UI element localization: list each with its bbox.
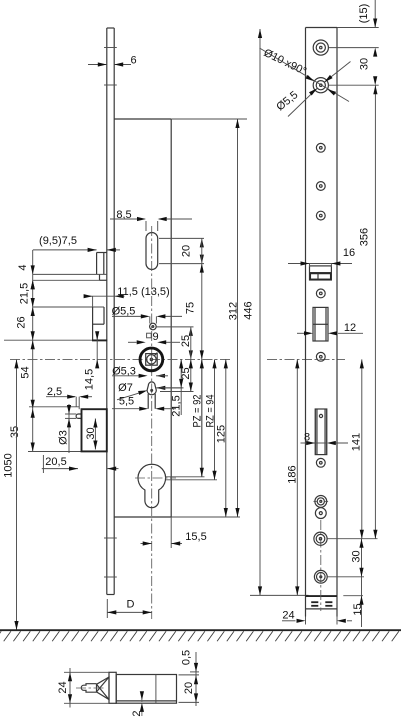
deadbolt (side view) <box>93 307 104 340</box>
dimension 312 case height <box>228 119 240 517</box>
dimension 125 <box>216 359 228 517</box>
svg-text:26: 26 <box>16 316 28 328</box>
dimension RZ = 94 <box>205 359 217 479</box>
svg-text:14,5: 14,5 <box>83 369 95 390</box>
dimension 15 bottom <box>352 577 364 627</box>
svg-text:Ø5,5: Ø5,5 <box>112 306 136 318</box>
svg-text:186: 186 <box>287 465 299 483</box>
dimension 30 bottom <box>351 539 364 577</box>
svg-text:16: 16 <box>343 247 355 259</box>
hole diameter 5,5 above follower <box>150 323 157 330</box>
dimension 186 <box>287 359 300 595</box>
svg-text:20,5: 20,5 <box>45 456 66 468</box>
dimension (9,5)7,5 latch protrusion <box>33 235 120 252</box>
detail bolt cone <box>97 677 110 700</box>
extension line strip top right <box>337 27 379 29</box>
top slot stadium hole <box>146 233 158 270</box>
lock case (side view) <box>114 119 171 517</box>
svg-text:15: 15 <box>352 603 364 615</box>
ground hatching <box>0 631 399 641</box>
PZ axis extension <box>166 476 205 478</box>
detail bolt center line <box>76 687 104 689</box>
svg-text:0,5: 0,5 <box>181 650 193 665</box>
extension line strip bottom right <box>343 595 363 597</box>
extension line y340 <box>4 339 92 341</box>
detail bolt pin tip <box>81 684 96 693</box>
svg-text:21,5: 21,5 <box>19 283 31 304</box>
svg-text:20: 20 <box>183 682 195 694</box>
svg-text:446: 446 <box>243 301 255 319</box>
svg-text:35: 35 <box>9 426 21 438</box>
svg-text:6: 6 <box>130 55 136 67</box>
dimension 35 <box>9 409 35 452</box>
dimension 1050 follower axis to floor <box>3 359 19 630</box>
follower square 9 label <box>147 331 159 343</box>
svg-text:25: 25 <box>180 367 192 379</box>
dimension 12 deadbolt width <box>297 322 363 335</box>
dimension 6 faceplate thickness <box>88 55 137 67</box>
extension line deadbolt top <box>33 306 104 308</box>
svg-text:25: 25 <box>180 335 192 347</box>
extension line bolt guide top <box>29 406 79 408</box>
dimension 356 <box>359 85 378 539</box>
faceplate front bottom cut line <box>306 595 338 597</box>
faceplate front view outline <box>306 28 338 617</box>
left chain dimension line <box>32 250 34 452</box>
dimension 30 top <box>329 48 379 86</box>
countersunk hole at 356 <box>314 532 327 545</box>
label diameter 10 x90 leader <box>260 47 350 102</box>
faceplate bottom box with break symbol <box>306 601 338 609</box>
svg-text:356: 356 <box>359 228 371 246</box>
dimension D backset <box>107 599 151 619</box>
countersunk hole bottom <box>314 570 327 583</box>
extension line latch bottom <box>33 273 107 275</box>
svg-text:141: 141 <box>350 433 362 451</box>
deadbolt guide thick line <box>92 339 107 341</box>
small hole 5 <box>316 211 325 220</box>
RZ axis extension <box>166 479 217 481</box>
dimension square 9 arrows <box>128 340 180 344</box>
dimension 4 <box>17 264 35 289</box>
extension line hole 356 <box>328 538 378 540</box>
dimension 75 <box>185 238 204 476</box>
dimension 21,5 follower to keyhole <box>160 359 184 416</box>
small hole 4 <box>316 182 325 191</box>
keep slot with pin hole <box>315 409 327 455</box>
dimension 54 <box>20 340 35 409</box>
dimension diameter 5,5 label <box>112 306 182 324</box>
extension line bottom hole <box>328 576 365 578</box>
dimension PZ = 92 <box>192 359 204 476</box>
shoot bolt pin <box>76 414 81 418</box>
svg-text:30: 30 <box>358 58 370 70</box>
svg-text:Ø3: Ø3 <box>58 430 70 445</box>
countersunk hole pair upper <box>314 496 329 508</box>
extension line bolt guide bottom <box>28 451 82 453</box>
case bottom extension line <box>171 516 240 518</box>
dimension 24 flange height <box>57 668 109 708</box>
svg-text:11,5 (13,5): 11,5 (13,5) <box>117 286 169 298</box>
dimension 20 body height <box>179 672 200 706</box>
svg-text:4: 4 <box>17 264 29 270</box>
svg-text:30: 30 <box>351 550 363 562</box>
dimension 0,5 flange step <box>181 650 200 672</box>
extension line latch step bottom <box>33 279 107 281</box>
plain hole pair lower <box>315 508 326 519</box>
svg-text:54: 54 <box>20 366 32 378</box>
dimension 2,5 <box>46 386 92 409</box>
svg-text:2,5: 2,5 <box>47 386 62 398</box>
latch step box <box>100 274 107 280</box>
dimension 8,5 slot width <box>110 209 192 231</box>
screw hole top countersunk <box>313 40 328 55</box>
dimension 446 overall length <box>243 29 263 595</box>
dimension 14,5 <box>83 331 99 390</box>
svg-text:5,5: 5,5 <box>119 396 134 408</box>
extension line strip bottom to right view <box>250 594 309 596</box>
faceplate break marks <box>104 48 117 578</box>
svg-text:24: 24 <box>57 681 69 693</box>
dimension 15,5 cylinder axis to case back <box>141 517 207 548</box>
dimension 25 lower <box>160 327 194 392</box>
label diameter 5,5 leader <box>274 62 350 117</box>
svg-text:9: 9 <box>152 331 158 343</box>
dimension 16 latch width <box>288 247 355 267</box>
vertical center line through lock axis <box>151 226 153 619</box>
follower square hole <box>146 354 158 366</box>
dimension 2 wall thickness <box>131 691 144 716</box>
small hole 6 <box>316 289 325 298</box>
detail bolt body <box>116 675 176 704</box>
dimension diameter 7 <box>117 382 182 400</box>
dimension 141 <box>350 359 364 538</box>
dimension 30 bolt guide <box>85 419 98 450</box>
dimension 24 faceplate width <box>282 610 352 625</box>
svg-text:15,5: 15,5 <box>185 531 206 543</box>
case top extension line <box>171 118 247 120</box>
dimension (15) top <box>358 0 377 28</box>
dimension 20 slot <box>159 238 204 263</box>
dimension 25 upper <box>156 327 194 360</box>
dimension 20,5 <box>42 455 119 473</box>
dimension 5,5 <box>112 396 176 411</box>
latch opening <box>310 266 332 280</box>
dimension diameter 5,3 <box>112 366 168 378</box>
deadbolt opening <box>313 307 328 341</box>
svg-text:(9,5)7,5: (9,5)7,5 <box>39 235 77 247</box>
small hole 7 on axis <box>316 352 325 361</box>
svg-text:12: 12 <box>344 322 356 334</box>
screw hole 2 countersunk <box>313 78 328 93</box>
svg-text:20: 20 <box>181 245 193 257</box>
svg-text:D: D <box>127 599 135 611</box>
euro profile cylinder hole <box>138 464 166 507</box>
latch bolt (side view) <box>97 253 107 275</box>
follower horizontal center line <box>10 358 232 360</box>
svg-text:75: 75 <box>185 302 197 314</box>
faceplate strip (side view) <box>107 28 114 595</box>
small hole 8 <box>316 458 325 467</box>
detail bolt flange <box>109 672 116 703</box>
follower center circle <box>147 353 158 364</box>
faceplate vertical center line <box>320 520 322 611</box>
svg-text:Ø7: Ø7 <box>118 382 133 394</box>
dimension 21,5 left <box>19 280 35 307</box>
svg-text:24: 24 <box>282 610 294 622</box>
dimension 8 keep slot <box>301 432 349 446</box>
svg-text:(15): (15) <box>358 4 370 24</box>
svg-text:1050: 1050 <box>3 453 15 477</box>
slot 5,5 below keyhole <box>148 394 155 409</box>
keyhole pear shape below follower <box>147 382 156 395</box>
small hole 3 <box>316 143 325 152</box>
dimension diameter 3 pin <box>58 404 77 453</box>
shoot bolt guide box <box>82 409 107 451</box>
follower nut ring <box>140 348 163 371</box>
cylinder center tick line <box>135 477 176 479</box>
ground line <box>0 629 401 631</box>
dimension 26 <box>16 307 35 340</box>
dimension 11,5 (13,5) <box>84 286 170 307</box>
